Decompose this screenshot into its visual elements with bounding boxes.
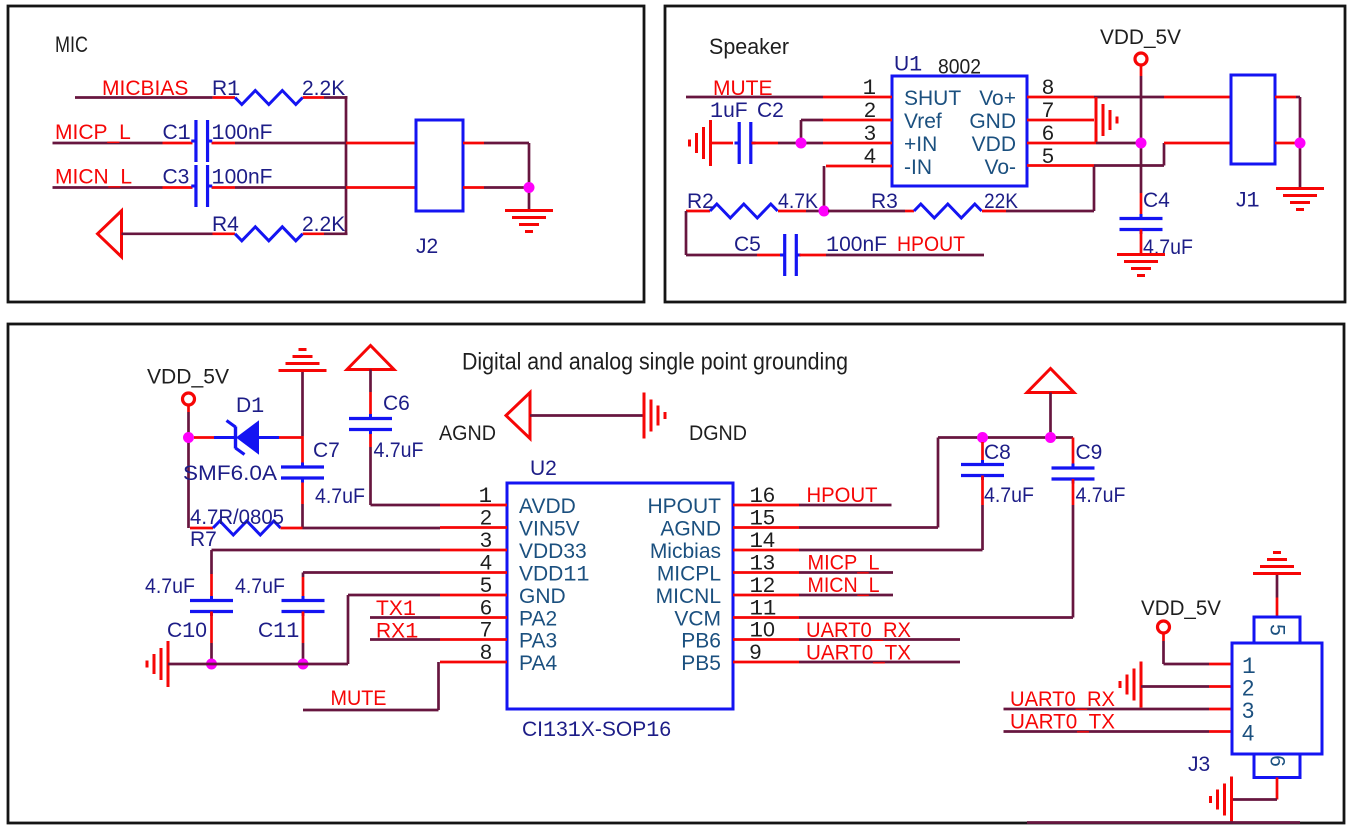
wire VDD_5V to J3 pin1: [1164, 633, 1233, 664]
wire R7 left lead: [190, 527, 213, 530]
junction VDD/D1/R7: [183, 432, 194, 443]
wire UART0_TX to J3 pin4: [1004, 730, 1233, 733]
wire R2 to junction: [778, 210, 820, 213]
svg-text:MICN_L: MICN_L: [55, 166, 132, 189]
svg-text:U2: U2: [530, 457, 557, 480]
svg-text:-IN: -IN: [904, 156, 932, 179]
pin 4 of U2: [440, 571, 507, 574]
svg-text:D1: D1: [236, 394, 264, 419]
svg-text:4.7K: 4.7K: [778, 190, 818, 213]
svg-text:C11: C11: [258, 619, 299, 644]
svg-text:UART0_RX: UART0_RX: [806, 619, 911, 642]
svg-text:3: 3: [1242, 698, 1254, 723]
capacitor C1: [191, 120, 212, 162]
svg-text:VCM: VCM: [674, 608, 721, 631]
svg-text:UART0_TX: UART0_TX: [1010, 711, 1115, 734]
svg-text:2.2K: 2.2K: [302, 213, 345, 236]
wire HPOUT net (U2): [799, 504, 892, 507]
wire MICP_L net (U2): [799, 571, 893, 574]
wire R3 to Vo- node: [982, 166, 1094, 212]
wire R2 left lead: [686, 210, 710, 213]
svg-text:22K: 22K: [984, 190, 1018, 213]
svg-text:100nF: 100nF: [212, 166, 273, 191]
pin 10 of U2: [733, 638, 799, 641]
svg-text:8: 8: [1042, 75, 1054, 99]
wire C11 to gnd rail: [302, 612, 305, 661]
capacitor C11: [282, 596, 325, 616]
wire UART0_TX net (U2): [799, 661, 960, 664]
wire VDD_5V vertical: [1140, 65, 1143, 217]
svg-text:MICNL: MICNL: [656, 585, 721, 608]
connector J3 pin6 block: [1254, 754, 1300, 778]
capacitor C8: [961, 460, 1004, 480]
pin 5 of U2: [440, 594, 507, 597]
svg-text:PA3: PA3: [519, 630, 557, 653]
wire gnd rail to GND pin: [168, 595, 440, 664]
resistor R7: [213, 521, 281, 535]
svg-text:MIC: MIC: [55, 32, 88, 57]
capacitor C2: [735, 122, 756, 164]
wire UART0_RX to J3 pin3: [1004, 708, 1233, 711]
wire MICP_L net: [53, 142, 347, 145]
wire VDD11 net: [303, 573, 440, 601]
svg-text:3: 3: [480, 528, 492, 552]
svg-text:SMF6.0A: SMF6.0A: [183, 462, 277, 485]
svg-text:VDD: VDD: [972, 133, 1016, 156]
wire C9 to VCM: [799, 479, 1073, 618]
svg-text:PA4: PA4: [519, 652, 557, 675]
svg-text:2: 2: [864, 98, 876, 122]
pin 8 of U2: [440, 661, 507, 664]
svg-text:4: 4: [480, 551, 492, 575]
resistor R4: [235, 227, 303, 241]
svg-text:100nF: 100nF: [826, 233, 887, 258]
wire RX1 net: [370, 638, 440, 641]
wire arrow stem: [1049, 393, 1052, 434]
wire C2 to +IN and Vref: [752, 120, 893, 143]
junction at C2/Vref/+IN: [796, 138, 807, 149]
svg-text:PB5: PB5: [681, 652, 721, 675]
svg-text:J1: J1: [1236, 189, 1260, 214]
svg-text:C9: C9: [1076, 441, 1103, 464]
junction at J2 ground: [524, 182, 535, 193]
svg-text:TX1: TX1: [376, 597, 416, 622]
wire J2 right pins to ground: [463, 143, 529, 210]
svg-text:MUTE: MUTE: [331, 687, 387, 710]
wire MICN_L net: [53, 186, 347, 189]
capacitor C7: [281, 463, 324, 483]
pin 13 of U2: [733, 571, 799, 574]
wire earth to J3 pin5: [1276, 575, 1279, 617]
svg-text:R4: R4: [212, 213, 239, 236]
svg-text:2: 2: [1242, 676, 1254, 701]
connector J3 body: [1232, 643, 1322, 754]
wire C5 to HPOUT: [800, 254, 985, 257]
junction arrow/rail: [1045, 432, 1056, 443]
wire C7 vertical: [301, 372, 304, 528]
pin 11 of U2: [733, 616, 799, 619]
AGND symbol (legend): [506, 393, 530, 439]
pin 12 of U2: [733, 594, 799, 597]
DGND symbol (legend): [644, 393, 665, 439]
connector J2: [416, 120, 463, 211]
svg-text:C6: C6: [383, 392, 410, 415]
pin 2 of J2 (MICN): [346, 186, 416, 189]
earth ground above C7: [279, 350, 327, 371]
svg-text:CI131X-SOP16: CI131X-SOP16: [522, 718, 671, 743]
svg-text:7: 7: [480, 618, 492, 642]
wire C6 vertical: [371, 370, 441, 506]
svg-text:C1: C1: [163, 121, 191, 146]
svg-text:Digital and analog single poin: Digital and analog single point groundin…: [462, 349, 848, 376]
svg-text:7: 7: [1042, 98, 1054, 122]
wire TX1 net: [370, 616, 440, 619]
svg-text:1uF: 1uF: [710, 99, 748, 124]
svg-text:C3: C3: [163, 166, 190, 189]
resistor R1: [235, 91, 303, 105]
svg-text:4.7uF: 4.7uF: [145, 575, 195, 598]
svg-text:MUTE: MUTE: [713, 77, 773, 100]
svg-text:Speaker: Speaker: [709, 34, 789, 59]
svg-text:HPOUT: HPOUT: [897, 233, 965, 256]
wire C10 to gnd rail: [210, 612, 213, 661]
wire VDD_5V down (main): [187, 405, 190, 528]
junction VDD/C4: [1136, 138, 1147, 149]
svg-text:100nF: 100nF: [212, 121, 273, 146]
earth ground (J1): [1276, 189, 1324, 210]
svg-text:9: 9: [750, 640, 762, 664]
svg-text:GND: GND: [969, 110, 1016, 133]
wire MUTE net (speaker): [686, 96, 892, 99]
earth ground above J3: [1253, 553, 1301, 574]
svg-text:C8: C8: [984, 441, 1011, 464]
capacitor C10: [190, 596, 233, 616]
svg-text:2.2K: 2.2K: [302, 77, 345, 100]
Speaker section frame: [665, 6, 1345, 302]
svg-text:MICP_L: MICP_L: [55, 121, 131, 144]
svg-text:4: 4: [864, 144, 876, 168]
svg-text:R1: R1: [212, 77, 240, 102]
resistor R3: [914, 204, 982, 218]
svg-text:C5: C5: [734, 233, 761, 256]
svg-text:VDD_5V: VDD_5V: [1141, 597, 1221, 620]
svg-text:UART0_TX: UART0_TX: [806, 642, 911, 665]
VDD_5V terminal (main): [183, 393, 195, 405]
svg-text:5: 5: [480, 573, 492, 597]
power arrow above C6: [347, 346, 394, 370]
wire AGND to R4: [122, 232, 348, 235]
wire J3 pin6 to ground: [1232, 778, 1277, 800]
wire Vo- to J1: [1027, 143, 1231, 166]
wire MUTE net (main): [303, 662, 439, 710]
wire off-sheet bottom: [1027, 821, 1300, 824]
junction C8/rail: [977, 432, 988, 443]
svg-text:+IN: +IN: [904, 133, 937, 156]
svg-text:C4: C4: [1143, 189, 1170, 212]
svg-text:4.7R/0805: 4.7R/0805: [190, 506, 284, 529]
wire junction to R3: [828, 210, 914, 213]
svg-text:MICBIAS: MICBIAS: [102, 77, 188, 100]
junction C10/gnd rail: [206, 659, 217, 670]
svg-text:HPOUT: HPOUT: [807, 484, 878, 507]
wire gnd to J3 pin2: [1141, 685, 1232, 688]
VDD_5V terminal (speaker): [1135, 53, 1147, 65]
wire MICBIAS net: [75, 96, 348, 99]
earth ground (J2): [505, 211, 553, 232]
svg-text:Vref: Vref: [904, 110, 942, 133]
svg-text:RX1: RX1: [376, 620, 418, 645]
resistor R2: [710, 204, 778, 218]
svg-text:MICN_L: MICN_L: [808, 574, 880, 597]
svg-text:J3: J3: [1188, 753, 1210, 776]
svg-text:PA2: PA2: [519, 608, 557, 631]
pin 16 of U2: [733, 504, 799, 507]
svg-text:PB6: PB6: [681, 630, 721, 653]
svg-text:4.7uF: 4.7uF: [374, 439, 424, 462]
pin 1 of U2: [440, 504, 507, 507]
wire C8 top lead: [981, 442, 984, 465]
Main section frame: [8, 324, 1344, 823]
signal ground (gnd rail): [147, 641, 168, 687]
earth ground (C4): [1117, 255, 1165, 276]
svg-text:2: 2: [480, 506, 492, 530]
wire Vo+ to J1: [1027, 96, 1231, 99]
junction R2/R3/-IN: [819, 206, 830, 217]
svg-text:MICP_L: MICP_L: [808, 552, 880, 575]
svg-text:DGND: DGND: [689, 421, 747, 445]
svg-text:Vo-: Vo-: [984, 156, 1016, 179]
svg-text:4.7uF: 4.7uF: [235, 575, 285, 598]
pin 3 of U2: [440, 549, 507, 552]
connector J3 pin5 block: [1254, 617, 1300, 643]
signal ground (C2): [690, 120, 711, 166]
signal ground (J3 pin6): [1211, 777, 1232, 823]
svg-text:R2: R2: [687, 190, 714, 213]
junction at J1 ground: [1295, 138, 1306, 149]
svg-text:Micbias: Micbias: [650, 540, 721, 563]
op-amp U1 body: [892, 76, 1027, 186]
wire VDD33 net: [212, 550, 441, 600]
svg-text:GND: GND: [519, 585, 566, 608]
pin 2 of U2: [440, 526, 507, 529]
wire C4 to ground: [1140, 230, 1143, 254]
power arrow above C8/C9: [1027, 369, 1074, 393]
connector J1: [1231, 75, 1275, 164]
wire gnd to C2: [711, 142, 734, 145]
svg-text:VDD11: VDD11: [519, 563, 590, 588]
wire VDD pin 6 (U1): [1027, 142, 1136, 145]
wire -IN to feedback node: [824, 166, 892, 211]
svg-text:6: 6: [480, 596, 492, 620]
svg-text:Vo+: Vo+: [979, 87, 1016, 110]
wire R2 to C5: [686, 211, 782, 255]
MIC section frame: [8, 6, 644, 302]
svg-text:VDD_5V: VDD_5V: [1100, 26, 1181, 49]
pin 9 of U2: [733, 661, 799, 664]
capacitor C9: [1052, 464, 1095, 484]
wire UART0_RX net (U2): [799, 638, 960, 641]
svg-text:C10: C10: [167, 619, 207, 644]
svg-text:4.7uF: 4.7uF: [315, 485, 365, 508]
svg-text:UART0_RX: UART0_RX: [1010, 688, 1115, 711]
pin 15 of U2: [733, 526, 799, 529]
AGND symbol (MIC): [98, 211, 122, 257]
svg-text:HPOUT: HPOUT: [648, 495, 722, 518]
svg-text:U1: U1: [894, 53, 922, 78]
svg-text:4: 4: [1242, 721, 1254, 746]
IC U2 body: [507, 483, 733, 709]
wire AGND to C8/C9 rail: [799, 438, 1073, 528]
svg-text:R3: R3: [871, 190, 898, 213]
svg-text:AGND: AGND: [660, 518, 721, 541]
diode D1 (TVS SMF6.0A): [194, 421, 303, 455]
svg-text:VDD_5V: VDD_5V: [147, 366, 229, 389]
junction C11/gnd rail: [298, 659, 309, 670]
svg-text:3: 3: [864, 121, 876, 145]
signal ground (J3 pin2): [1120, 662, 1141, 708]
svg-text:6: 6: [1266, 755, 1289, 767]
svg-text:SHUT: SHUT: [904, 87, 961, 110]
wire MICN_L net (U2): [799, 594, 893, 597]
svg-text:VDD33: VDD33: [519, 540, 587, 563]
wire GND pin stub (U1): [1027, 119, 1094, 122]
wire R7 to VIN5V: [281, 527, 441, 530]
svg-text:VIN5V: VIN5V: [519, 518, 580, 541]
capacitor C3: [191, 165, 212, 207]
svg-text:5: 5: [1266, 624, 1289, 636]
svg-text:MICPL: MICPL: [657, 563, 721, 586]
capacitor C4: [1120, 214, 1163, 234]
wire AGND-DGND legend: [530, 414, 643, 417]
svg-text:4.7uF: 4.7uF: [984, 484, 1034, 507]
wire C9 top lead: [1072, 438, 1075, 469]
wire C8 to Micbias: [799, 476, 983, 551]
svg-text:4.7uF: 4.7uF: [1076, 484, 1126, 507]
pin 7 of U2: [440, 638, 507, 641]
VDD_5V terminal (J3): [1158, 621, 1170, 633]
pin 6 of U2: [440, 616, 507, 619]
svg-text:C2: C2: [757, 99, 784, 122]
svg-text:C7: C7: [313, 439, 340, 462]
svg-text:R7: R7: [190, 528, 217, 551]
svg-text:J2: J2: [416, 235, 438, 258]
svg-text:AGND: AGND: [439, 421, 496, 445]
svg-text:8002: 8002: [938, 56, 981, 79]
signal ground (U1 pin 7): [1096, 97, 1117, 143]
svg-text:8: 8: [480, 640, 492, 664]
capacitor C5: [780, 234, 801, 276]
capacitor C6: [349, 414, 392, 434]
pin 1 of J2 (MICP): [346, 142, 416, 145]
svg-text:6: 6: [1042, 121, 1054, 145]
svg-text:AVDD: AVDD: [519, 495, 576, 518]
wire R1-R4 vertical: [345, 96, 348, 234]
wire J1 right pins to ground: [1275, 97, 1300, 188]
pin 14 of U2: [733, 549, 799, 552]
